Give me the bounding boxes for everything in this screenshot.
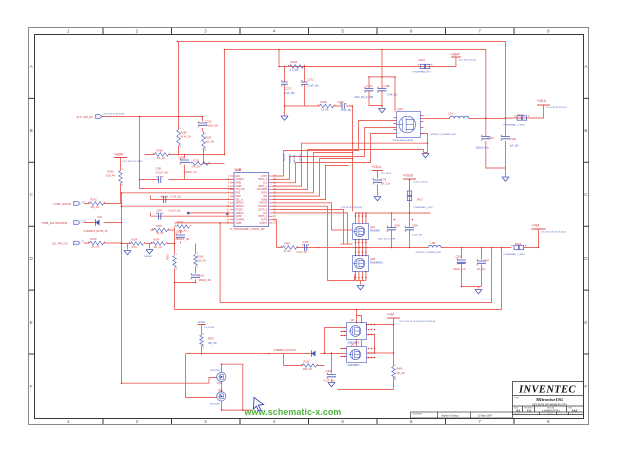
svg-text:FDS6984: FDS6984 xyxy=(370,230,380,232)
svg-text:VREF: VREF xyxy=(236,186,243,188)
svg-text:4.7uF_25v: 4.7uF_25v xyxy=(412,235,423,237)
svg-text:R280: R280 xyxy=(181,132,188,135)
svg-text:560uF_6.3v: 560uF_6.3v xyxy=(454,269,467,271)
svg-text:1uF_16V: 1uF_16V xyxy=(510,146,520,148)
svg-text:VFB1: VFB1 xyxy=(236,183,243,185)
ground C278 xyxy=(374,197,381,201)
svg-text:R487: R487 xyxy=(285,243,291,246)
svg-text:EN1: EN1 xyxy=(236,176,241,178)
svg-text:KPU4108F2A_RD88: KPU4108F2A_RD88 xyxy=(393,139,414,142)
border frame xyxy=(29,28,589,425)
wire C240 xyxy=(180,232,182,244)
svg-text:TON5: TON5 xyxy=(261,199,268,201)
svg-text:VIN_VID: VIN_VID xyxy=(236,189,245,191)
capacitor C287 xyxy=(159,213,161,220)
svg-text:Q2B: Q2B xyxy=(370,258,375,261)
capacitor C199 xyxy=(501,137,510,139)
svg-text:3: 3 xyxy=(204,419,207,424)
svg-text:R242: R242 xyxy=(291,60,298,64)
svg-text:220_3%: 220_3% xyxy=(198,261,206,263)
svg-text:PGOOD: PGOOD xyxy=(258,206,267,208)
wire +VBAT rail xyxy=(279,50,456,67)
svg-text:R404: R404 xyxy=(397,368,403,371)
svg-text:4.7uF_56v: 4.7uF_56v xyxy=(284,92,296,95)
svg-text:SMAO1: SMAO1 xyxy=(236,202,245,205)
svg-text:LL1_BST: LL1_BST xyxy=(290,153,292,163)
wire left bus x121 xyxy=(122,193,217,383)
svg-text:BST1_1: BST1_1 xyxy=(259,186,268,188)
svg-text:VREG5: VREG5 xyxy=(259,203,268,205)
svg-text:CAP1: CAP1 xyxy=(261,192,268,195)
svg-text:C267: C267 xyxy=(484,260,490,263)
wire C281 row xyxy=(140,179,234,181)
inductor L1A xyxy=(450,116,469,118)
svg-text:COMP5: COMP5 xyxy=(236,220,245,222)
wire Q14 left pins fan xyxy=(273,121,397,183)
svg-text:VFB5: VFB5 xyxy=(236,223,243,225)
svg-text:SUSP: SUSP xyxy=(236,216,243,218)
resistor R209 xyxy=(119,171,123,184)
svg-text:22_5%: 22_5% xyxy=(284,251,291,253)
resistor R242 xyxy=(290,65,304,69)
svg-text:9.4.7.10.41: 9.4.7.10.41 xyxy=(204,327,215,329)
svg-text:110#A333781: 110#A333781 xyxy=(542,408,560,412)
svg-text:9.4.7.19.41: 9.4.7.19.41 xyxy=(381,173,392,175)
wire R288 row xyxy=(145,155,225,180)
svg-text:R209: R209 xyxy=(108,171,115,174)
svg-text:CHEMMAX_BAT54_3P: CHEMMAX_BAT54_3P xyxy=(84,230,108,233)
svg-text:C271: C271 xyxy=(286,87,293,91)
svg-text:21-Mar-2007: 21-Mar-2007 xyxy=(478,414,493,417)
powerpad PA2A xyxy=(420,64,424,68)
svg-text:7.8.0.35.39.57.58.44.47: 7.8.0.35.39.57.58.44.47 xyxy=(341,207,364,209)
svg-text:1: 1 xyxy=(67,29,70,34)
Q8 pin cluster dots xyxy=(341,324,376,359)
svg-text:+VSUS: +VSUS xyxy=(403,174,414,178)
svg-text:R292: R292 xyxy=(91,199,98,202)
svg-text:L3B: L3B xyxy=(431,241,436,245)
svg-text:R239: R239 xyxy=(321,100,328,104)
ground thermal xyxy=(146,250,153,254)
svg-text:2: 2 xyxy=(136,419,139,424)
resistor R407 xyxy=(200,335,204,346)
wire Q8 Q9 right / +V3A xyxy=(338,318,394,390)
resistor R280 xyxy=(177,130,181,146)
transistor Q2A xyxy=(353,224,369,240)
resistor R239 xyxy=(320,104,334,108)
svg-text:C198: C198 xyxy=(488,137,495,140)
svg-text:PA27: PA27 xyxy=(417,199,424,202)
svg-text:3,300uF_16v: 3,300uF_16v xyxy=(184,172,198,174)
svg-text:E: E xyxy=(30,320,33,325)
svg-text:INVENTEC: INVENTEC xyxy=(518,384,576,395)
svg-text:Q12: Q12 xyxy=(218,389,223,392)
wire right fan 2 xyxy=(273,150,428,190)
svg-text:F: F xyxy=(584,384,587,389)
svg-text:PA04: PA04 xyxy=(518,113,525,117)
svg-text:Q2A: Q2A xyxy=(370,226,375,229)
svg-text:R187: R187 xyxy=(206,137,213,140)
title block xyxy=(513,382,584,416)
capacitor C284 xyxy=(405,228,414,230)
svg-text:200_3%: 200_3% xyxy=(397,373,405,375)
svg-text:+V3LA: +V3LA xyxy=(537,99,548,103)
svg-text:C285: C285 xyxy=(179,157,185,160)
ground C171 xyxy=(378,109,385,113)
svg-text:6: 6 xyxy=(410,419,413,424)
svg-text:C229: C229 xyxy=(206,121,213,124)
U1B pin13 marker xyxy=(226,213,228,215)
svg-text:8.17.25.29.27.29.36.43.44: 8.17.25.29.27.29.36.43.44 xyxy=(542,232,567,234)
wire gnd row y243 xyxy=(122,244,175,250)
capacitor C281 xyxy=(159,176,161,183)
svg-text:D32: D32 xyxy=(98,216,103,219)
transistor Q2B xyxy=(353,256,369,272)
wire R239 C286 row xyxy=(285,106,353,212)
resistor R304 xyxy=(131,242,144,246)
svg-text:C180: C180 xyxy=(384,84,391,88)
svg-text:POWERPAD2.8OI: POWERPAD2.8OI xyxy=(413,71,431,74)
capacitor C285 xyxy=(180,160,189,162)
wire TVB8 net xyxy=(84,222,122,224)
svg-text:L1A: L1A xyxy=(449,112,454,116)
svg-text:C226: C226 xyxy=(161,196,167,199)
svg-text:6: 6 xyxy=(410,29,413,34)
svg-text:R288: R288 xyxy=(157,150,164,153)
resistor R340 xyxy=(90,241,104,245)
power +V3LA mid xyxy=(372,170,383,172)
svg-text:0.01uF_16V: 0.01uF_16V xyxy=(156,173,169,175)
powerpad PA27 xyxy=(407,191,411,195)
svg-text:Q14: Q14 xyxy=(398,107,404,111)
svg-text:FDS6984AS: FDS6984AS xyxy=(370,261,383,264)
wire R260 C241 chain xyxy=(195,244,197,283)
wire right fan 4 xyxy=(273,166,349,200)
svg-text:+V3LA: +V3LA xyxy=(197,321,205,324)
wire R215 row xyxy=(191,163,225,165)
power +VBAT mid xyxy=(114,157,127,159)
svg-text:98_5%: 98_5% xyxy=(157,233,164,235)
svg-text:10uF_25v_K_X5R: 10uF_25v_K_X5R xyxy=(355,97,374,99)
wire U1B r-pin 12 xyxy=(273,213,348,244)
svg-text:SCALE: SCALE xyxy=(515,413,520,416)
svg-text:C246: C246 xyxy=(303,241,309,244)
wire U1B r-pin 11 xyxy=(273,210,344,244)
svg-text:8.17.20.24.27.30.44.49.46.52.5: 8.17.20.24.27.30.44.49.46.52.53.56.43 xyxy=(400,321,437,323)
wire Q8 Q9 mid xyxy=(357,340,362,347)
svg-text:7.2.8.9.17.29.40: 7.2.8.9.17.29.40 xyxy=(413,182,429,184)
svg-text:2N7002W: 2N7002W xyxy=(210,403,221,405)
wire x174 chain xyxy=(175,244,502,310)
svg-text:0.1uF_16v: 0.1uF_16v xyxy=(297,252,309,254)
power +VSUS xyxy=(403,178,416,180)
svg-text:+V3LA: +V3LA xyxy=(372,165,383,169)
power +V3.3A xyxy=(537,104,550,106)
wire Q2A gate xyxy=(273,203,353,230)
svg-text:R294: R294 xyxy=(154,239,160,242)
transistor Q8 xyxy=(347,323,367,340)
wire Q8 Q9 left xyxy=(325,328,347,382)
svg-text:8.2.7.3.8.11.17.20.45: 8.2.7.3.8.11.17.20.45 xyxy=(123,161,143,163)
svg-text:R340: R340 xyxy=(91,238,98,241)
svg-text:R260: R260 xyxy=(198,256,204,259)
svg-text:A3: A3 xyxy=(516,409,520,413)
svg-text:+VBAT: +VBAT xyxy=(114,153,124,157)
capacitor C198 xyxy=(481,137,490,139)
wire R187 chain xyxy=(204,132,209,164)
resistor R187 xyxy=(202,135,206,149)
svg-text:1uF_10v: 1uF_10v xyxy=(477,269,487,271)
wire top bus 2 xyxy=(225,50,486,155)
svg-text:SHEET: SHEET xyxy=(548,414,553,416)
svg-text:VREG3: VREG3 xyxy=(236,213,245,215)
svg-text:4A3: 4A3 xyxy=(572,409,578,413)
wire +V3.3A stub xyxy=(543,104,545,106)
svg-text:+V3A: +V3A xyxy=(387,313,396,317)
svg-text:TVB8_SHUTDOWN#: TVB8_SHUTDOWN# xyxy=(42,221,68,225)
ground C202 xyxy=(475,290,482,294)
svg-text:Q10: Q10 xyxy=(217,382,222,385)
wire Q8 top to lineB xyxy=(357,310,362,323)
svg-text:C286: C286 xyxy=(338,101,345,104)
svg-text:SMAO2: SMAO2 xyxy=(236,205,245,208)
svg-text:BST5_1: BST5_1 xyxy=(259,216,268,218)
svg-text:4700pF_50v: 4700pF_50v xyxy=(206,126,220,128)
capacitor C202 xyxy=(457,260,466,262)
svg-text:C171: C171 xyxy=(367,84,374,88)
svg-text:PGOD: PGOD xyxy=(236,209,243,211)
signature strip xyxy=(411,412,513,418)
powerpad PA04 xyxy=(517,116,521,120)
svg-text:100_3%: 100_3% xyxy=(206,142,214,144)
wire lineA xyxy=(220,223,491,303)
transistor Q9 xyxy=(347,347,367,363)
wire C171 C180 branch xyxy=(369,50,395,112)
svg-text:SEL_6: SEL_6 xyxy=(236,199,244,201)
svg-text:EN_LL: EN_LL xyxy=(284,153,286,160)
wire Q2A top cluster xyxy=(356,205,431,224)
ground C198 xyxy=(502,177,509,181)
svg-text:0.5uF_36v: 0.5uF_36v xyxy=(341,110,353,112)
svg-text:POWERPAD_2_8OI: POWERPAD_2_8OI xyxy=(414,206,433,209)
svg-text:6800pF_25v: 6800pF_25v xyxy=(199,280,213,282)
svg-text:PA03: PA03 xyxy=(515,242,522,246)
svg-text:436_3%: 436_3% xyxy=(91,206,101,209)
svg-text:TITLE: TITLE xyxy=(514,397,520,399)
svg-text:28.4K_1%: 28.4K_1% xyxy=(181,137,192,139)
wire EC_PW_ON net xyxy=(84,242,122,244)
svg-text:BST1_2: BST1_2 xyxy=(259,179,268,181)
svg-text:5: 5 xyxy=(341,29,344,34)
svg-text:C404: C404 xyxy=(326,370,332,373)
svg-text:+V5A: +V5A xyxy=(532,224,541,228)
svg-text:B: B xyxy=(584,128,587,133)
svg-text:3900pF_10k: 3900pF_10k xyxy=(177,239,191,241)
svg-text:GND: GND xyxy=(236,196,241,198)
svg-text:VIN: VIN xyxy=(263,196,267,198)
wire C198 C199 branches xyxy=(486,118,506,177)
svg-text:1000_4%: 1000_4% xyxy=(303,369,313,371)
svg-text:R215: R215 xyxy=(194,160,200,163)
svg-text:8: 8 xyxy=(547,29,550,34)
resistor R267 xyxy=(154,228,168,232)
wire Q14 bottom to ground xyxy=(421,134,428,144)
svg-text:0.1uF_16v: 0.1uF_16v xyxy=(171,197,183,199)
svg-text:R270: R270 xyxy=(178,221,184,224)
svg-text:4.7uF_25v: 4.7uF_25v xyxy=(387,95,399,97)
svg-text:PA2A: PA2A xyxy=(419,58,426,62)
svg-text:100_1%: 100_1% xyxy=(157,158,165,160)
inductor L3B xyxy=(429,245,442,247)
capacitor C241 xyxy=(191,275,200,277)
svg-text:100_1%: 100_1% xyxy=(154,247,162,249)
svg-text:R407: R407 xyxy=(208,337,214,340)
svg-text:C287: C287 xyxy=(157,210,163,213)
svg-text:8: 8 xyxy=(547,419,550,424)
svg-text:0.01uF_16v: 0.01uF_16v xyxy=(169,211,182,213)
ground C404 xyxy=(328,383,335,387)
svg-text:C241: C241 xyxy=(199,275,205,278)
svg-text:C199: C199 xyxy=(510,138,517,141)
svg-text:44: 44 xyxy=(572,414,574,416)
power +V5A xyxy=(532,228,546,230)
wire Q14 output / L1A xyxy=(421,118,506,120)
svg-text:SYNTEC_POW0380_4R7: SYNTEC_POW0380_4R7 xyxy=(431,134,457,136)
svg-text:POWERPAD_2_8010: POWERPAD_2_8010 xyxy=(504,124,526,127)
capacitor C240 xyxy=(176,235,185,237)
svg-text:2N7002W: 2N7002W xyxy=(210,370,221,372)
capacitor C286 xyxy=(342,103,344,109)
wire C202 C267 xyxy=(462,248,482,289)
wire C283 C284 xyxy=(392,213,410,248)
svg-text:1000uF_6.3v: 1000uF_6.3v xyxy=(476,148,490,150)
resistor R288 xyxy=(155,153,169,157)
wire gate rail y243 xyxy=(273,220,353,248)
resistor R215 xyxy=(191,162,209,166)
wire U1B left pin rows xyxy=(122,193,234,223)
svg-text:C272: C272 xyxy=(308,78,315,82)
svg-text:R313: R313 xyxy=(304,361,310,364)
svg-text:BST5_2: BST5_2 xyxy=(259,209,268,211)
svg-text:C202: C202 xyxy=(456,256,462,259)
capacitor C272 xyxy=(301,82,307,84)
svg-text:1000_4%: 1000_4% xyxy=(106,176,116,178)
svg-text:OUTGND: OUTGND xyxy=(257,189,267,191)
wire y353 row xyxy=(186,354,347,398)
capacitor C271 xyxy=(281,82,287,84)
svg-text:8.7.19.23.32.39.39.42: 8.7.19.23.32.39.39.42 xyxy=(547,107,568,109)
svg-text:2: 2 xyxy=(136,29,139,34)
capacitor C404 xyxy=(327,375,336,377)
wire HYSA net xyxy=(84,203,122,205)
svg-text:1: 1 xyxy=(67,419,70,424)
svg-text:SI3433BDV: SI3433BDV xyxy=(348,365,360,367)
svg-text:5: 5 xyxy=(341,419,344,424)
Q2 pin cluster dots top xyxy=(355,215,367,278)
resistor R487 xyxy=(283,246,297,250)
capacitor C171 xyxy=(365,89,374,91)
svg-text:Audrey Cheong: Audrey Cheong xyxy=(441,414,459,417)
svg-text:+VBAT: +VBAT xyxy=(450,52,460,56)
svg-text:F: F xyxy=(30,384,33,389)
power +V3LA bottom xyxy=(198,324,206,326)
svg-text:3: 3 xyxy=(204,29,207,34)
wire R311 row xyxy=(284,353,325,366)
svg-text:10K_3%: 10K_3% xyxy=(91,246,101,249)
svg-text:R304: R304 xyxy=(132,239,138,242)
svg-text:OUT5: OUT5 xyxy=(261,220,268,222)
svg-text:COMP1: COMP1 xyxy=(236,179,245,181)
svg-text:C283: C283 xyxy=(394,225,400,228)
capacitor C278 xyxy=(373,180,382,182)
svg-text:U1B: U1B xyxy=(235,168,242,172)
wire Q10 Q12 chain xyxy=(222,364,253,410)
svg-text:EN5: EN5 xyxy=(236,193,241,195)
svg-text:B: B xyxy=(30,128,33,133)
wire +V3LA lower / R407 xyxy=(201,325,203,354)
power +V3A xyxy=(387,317,400,319)
wire PA04 to +V3.3A xyxy=(506,105,544,118)
U1B pin numbers xyxy=(226,176,276,225)
ground C271 xyxy=(281,116,288,120)
wire SLP_S4 net xyxy=(102,117,234,189)
svg-text:VO5TV: VO5TV xyxy=(259,223,267,225)
svg-text:SYSTEM POWER(3V/5V): SYSTEM POWER(3V/5V) xyxy=(532,402,568,406)
capacitor C180 xyxy=(378,89,387,91)
capacitor C267 xyxy=(477,261,486,263)
svg-text:1uF_3.3v: 1uF_3.3v xyxy=(381,184,391,186)
svg-text:10uF_25v_K_X5R: 10uF_25v_K_X5R xyxy=(378,239,396,241)
transistor Q10 xyxy=(217,372,226,381)
wire y291 xyxy=(0,0,2,2)
svg-text:4.7_5%: 4.7_5% xyxy=(290,68,299,72)
diode D33 xyxy=(312,351,316,357)
svg-text:6.2%: 6.2% xyxy=(132,247,137,249)
wire x178 chain xyxy=(179,42,203,155)
svg-text:TH2008: TH2008 xyxy=(144,256,153,258)
transistor Q12 xyxy=(217,392,226,401)
ground Q2B xyxy=(357,286,364,290)
diode D32 xyxy=(96,220,100,226)
wire top bus 1 xyxy=(178,42,506,119)
wire x358 fan verticals xyxy=(0,0,2,2)
svg-text:8.4.7.8.9.11.20.44: 8.4.7.8.9.11.20.44 xyxy=(459,60,477,62)
wire Q2 mid cluster xyxy=(356,240,366,256)
svg-text:MItronixe10G: MItronixe10G xyxy=(535,397,564,402)
svg-text:10K_5%: 10K_5% xyxy=(208,343,217,345)
svg-text:R267: R267 xyxy=(157,225,163,228)
svg-text:HYBA_SIGON: HYBA_SIGON xyxy=(54,202,72,206)
wire +VSUS PA27 xyxy=(409,180,411,228)
wire Q2B bottom xyxy=(356,272,366,285)
power +VBAT top xyxy=(451,56,461,58)
svg-text:C284: C284 xyxy=(412,225,418,228)
capacitor C283 xyxy=(387,228,396,230)
wire +V3LA branch xyxy=(377,171,379,196)
svg-text:LL5_BST: LL5_BST xyxy=(300,153,302,163)
svg-text:DRAWN BY: DRAWN BY xyxy=(413,413,423,416)
svg-text:3.3_5%: 3.3_5% xyxy=(321,109,330,112)
svg-text:S3.71.52.55.46.53.56: S3.71.52.55.46.53.56 xyxy=(104,114,126,116)
wire right fan 1 xyxy=(273,143,428,186)
resistor R311 xyxy=(303,364,317,368)
resistor R292 xyxy=(90,202,104,206)
svg-text:4: 4 xyxy=(273,419,276,424)
svg-text:E: E xyxy=(584,320,587,325)
transistor Q14 xyxy=(397,112,421,138)
wire Q2B gate xyxy=(273,206,355,280)
svg-text:7: 7 xyxy=(478,419,481,424)
